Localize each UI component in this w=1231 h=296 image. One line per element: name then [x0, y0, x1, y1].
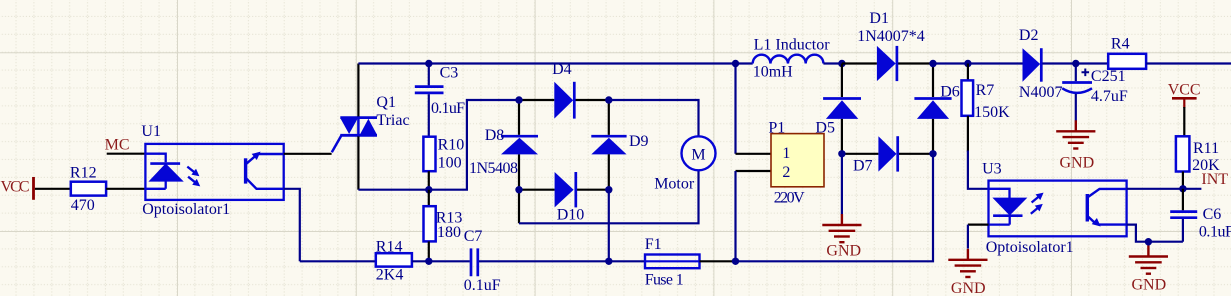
ground under U3 left [948, 249, 987, 296]
svg-text:R14: R14 [376, 239, 403, 256]
svg-text:N4007: N4007 [1019, 84, 1063, 101]
svg-text:INT: INT [1201, 171, 1228, 188]
wire L1 to bridge2 TL [823, 62, 842, 64]
node P1 pin2 bottom rail [732, 258, 739, 265]
node C3/rail junction [425, 60, 432, 67]
capacitor C6 [1170, 189, 1231, 242]
node INT junction [1179, 185, 1186, 192]
svg-text:F1: F1 [645, 236, 662, 253]
svg-text:150K: 150K [974, 104, 1010, 121]
svg-text:C3: C3 [440, 64, 459, 81]
svg-text:4.7uF: 4.7uF [1091, 88, 1128, 105]
svg-text:220V: 220V [774, 190, 805, 207]
wire U3 collector to ground node [1127, 225, 1183, 242]
wire R7 to U3 [968, 151, 989, 189]
node bridge1 TL [515, 96, 522, 103]
wire main top rail [358, 62, 752, 64]
U3 light arrows [1028, 190, 1045, 217]
svg-text:D5: D5 [815, 119, 835, 136]
svg-text:R10: R10 [438, 137, 465, 154]
resistor R11 [1176, 136, 1220, 174]
pin R11 bottom [1182, 172, 1184, 189]
svg-text:U3: U3 [982, 160, 1002, 177]
diode D9 [591, 133, 648, 154]
svg-text:Q1: Q1 [376, 94, 396, 111]
wire P1 pin2 riser [734, 171, 736, 261]
capacitor C7 [464, 228, 501, 294]
bridge1 top rail [519, 99, 609, 101]
svg-text:1N5408: 1N5408 [469, 160, 518, 177]
wire C7 to bridge BR riser [479, 260, 609, 262]
wire bottom rail to bridge2 riser [736, 154, 934, 261]
node R10/R13 junction [425, 186, 432, 193]
pin P1 pin1 [736, 153, 772, 155]
U3 LED (points down) [989, 189, 1025, 225]
svg-text:MC: MC [105, 137, 130, 154]
svg-text:R7: R7 [976, 82, 995, 99]
wire bottom rail to F1 [609, 260, 645, 262]
svg-text:C7: C7 [464, 228, 483, 245]
wire U1 collector down to bottom rail [284, 189, 300, 261]
svg-text:Fuse 1: Fuse 1 [645, 272, 684, 289]
svg-text:GND: GND [1132, 276, 1167, 293]
svg-text:M: M [691, 146, 705, 163]
transistor Q1 triac [332, 94, 410, 152]
wire bridge TR to motor top [609, 100, 699, 136]
svg-text:1N4007*4: 1N4007*4 [857, 28, 925, 45]
svg-text:D1: D1 [869, 10, 889, 27]
wire bottom rail left [300, 260, 376, 262]
wire motor return [519, 171, 699, 224]
U1 phototransistor [244, 149, 284, 189]
node bridge1 BR [605, 186, 612, 193]
wire down to right ground [1147, 242, 1149, 246]
svg-text:L1 Inductor: L1 Inductor [754, 36, 831, 53]
pin triac MT2 up [357, 64, 359, 117]
connector P1 [768, 120, 824, 207]
bridge1 right vertical wire [608, 100, 610, 190]
node bridge2 BR [929, 150, 936, 157]
resistor R14 [376, 239, 412, 284]
wire R12 to U1 [106, 188, 145, 190]
bridge2 top rail [842, 62, 933, 64]
node P1 pin1 riser junction [732, 60, 739, 67]
wire rail bridge2 TR to D2 [933, 62, 1023, 64]
node R7 rail junction [964, 60, 971, 67]
svg-text:GND: GND [951, 280, 986, 296]
node bridge1 TR [605, 96, 612, 103]
capacitor C3 [415, 64, 465, 137]
svg-text:0.1uF: 0.1uF [464, 277, 501, 294]
diode D8 [469, 127, 538, 177]
svg-text:GND: GND [826, 243, 861, 260]
node C251 junction [1072, 60, 1079, 67]
resistor R12 [70, 165, 106, 215]
svg-text:VCC: VCC [1168, 81, 1201, 98]
U3 phototransistor [1086, 189, 1127, 230]
node ground junction right [1145, 238, 1152, 245]
pin U3 LED cathode to ground riser [968, 224, 989, 226]
svg-text:D4: D4 [552, 61, 572, 78]
inductor L1 [753, 36, 831, 80]
wire bridge BR down to bottom rail [608, 190, 610, 262]
diode D4 [552, 61, 574, 119]
diode D10 [555, 172, 585, 224]
wire triac MT1 rail to bridge TL [358, 100, 519, 190]
diode D5 [815, 99, 861, 137]
svg-text:1: 1 [782, 145, 790, 162]
op-amp U3 optoisolator box [982, 160, 1127, 256]
node bridge2 BL [838, 150, 845, 157]
wire F1 to P1 riser [700, 260, 736, 262]
resistor R7 [962, 64, 1011, 152]
svg-text:VCC: VCC [1, 179, 30, 196]
bridge1 bottom rail [519, 189, 609, 191]
svg-text:0.1uF: 0.1uF [431, 100, 465, 117]
node bridge2 TR [929, 60, 936, 67]
motor M1 circle [654, 136, 715, 192]
node bridge1 BL [515, 186, 522, 193]
U1 LED [145, 154, 181, 189]
wire VCC to R11 [1183, 107, 1185, 136]
svg-text:Optoisolator1: Optoisolator1 [142, 201, 230, 218]
svg-text:2: 2 [782, 164, 790, 181]
power port VCC (left) [1, 177, 34, 200]
power port VCC (right) [1168, 81, 1201, 108]
svg-text:2K4: 2K4 [376, 266, 404, 283]
svg-text:R11: R11 [1193, 140, 1219, 157]
svg-text:D6: D6 [940, 84, 960, 101]
pin P1 pin2 [736, 170, 772, 172]
wire P1 pin1 riser [734, 64, 736, 154]
svg-text:R4: R4 [1111, 35, 1130, 52]
svg-text:0.1uF: 0.1uF [1199, 224, 1231, 241]
capacitor C251 polarized [1062, 64, 1128, 121]
bridge2 right vertical wire [932, 64, 934, 154]
wire bridge2 BL to ground [841, 154, 843, 215]
diode D1 [857, 10, 925, 81]
wire U3 emitter to INT node [1127, 188, 1202, 190]
resistor R10 [423, 137, 464, 172]
diode D2 [1019, 27, 1063, 101]
svg-text:C251: C251 [1091, 68, 1126, 85]
svg-text:D10: D10 [557, 207, 585, 224]
svg-text:U1: U1 [141, 123, 161, 140]
ground under C251 [1056, 120, 1095, 171]
svg-text:10mH: 10mH [753, 63, 793, 80]
node bridge2 TL [838, 60, 845, 67]
node R13 bottom rail junction [425, 258, 432, 265]
svg-text:P1: P1 [768, 120, 785, 137]
wire U3 ground riser [967, 225, 969, 249]
resistor R13 [424, 190, 463, 262]
svg-text:Motor: Motor [654, 175, 695, 192]
diode D6 [914, 84, 959, 119]
pin R10 bottom [428, 171, 430, 190]
wire R4 to right edge [1146, 62, 1231, 64]
svg-text:GND: GND [1060, 154, 1095, 171]
wire D2 to C251 junction [1042, 62, 1108, 64]
svg-text:C6: C6 [1203, 206, 1222, 223]
svg-text:180: 180 [437, 224, 461, 241]
resistor R4 [1108, 35, 1146, 68]
svg-text:100: 100 [438, 155, 462, 172]
op-amp U1 optoisolator box [141, 123, 283, 218]
wire U1 emitter to triac gate [284, 153, 332, 155]
svg-text:470: 470 [71, 197, 95, 214]
U1 light arrows [185, 164, 203, 190]
svg-text:Triac: Triac [376, 112, 409, 129]
ground right of U3 [1129, 246, 1168, 294]
wire VCC to R12 [35, 188, 71, 190]
svg-text:D7: D7 [853, 158, 873, 175]
ground under P1 [822, 214, 861, 260]
wire R14 to C7 [412, 260, 470, 262]
diode D7 [853, 136, 898, 174]
bridge2 bottom rail [842, 153, 933, 155]
svg-text:D9: D9 [629, 133, 649, 150]
pin triac MT1 down [357, 136, 359, 189]
bridge2 left vertical wire [841, 64, 843, 154]
fuse F1 [645, 236, 700, 288]
svg-text:D2: D2 [1019, 27, 1039, 44]
wire MC to U1 [107, 153, 146, 155]
svg-text:Optoisolator1: Optoisolator1 [986, 239, 1074, 256]
svg-text:D8: D8 [485, 127, 505, 144]
node bridge BR bottom rail [605, 258, 612, 265]
svg-text:R12: R12 [70, 165, 97, 182]
bridge1 left vertical wire [518, 100, 520, 223]
